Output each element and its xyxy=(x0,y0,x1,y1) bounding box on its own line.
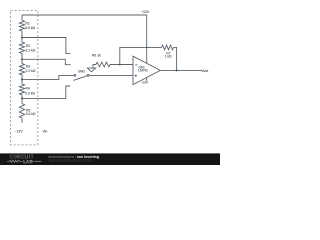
resistor R2 xyxy=(19,42,24,54)
potentiometer R6 wiper arrow xyxy=(87,68,95,72)
svg-text:2.2 kΩ: 2.2 kΩ xyxy=(25,91,35,95)
svg-text:-12V: -12V xyxy=(141,80,149,84)
svg-text:http://circuitlab.com/c/2cc5a: http://circuitlab.com/c/2cc5a xyxy=(48,158,91,162)
wire feedback up-left xyxy=(120,47,162,64)
svg-text:R3: R3 xyxy=(26,65,30,69)
svg-text:2.2 kΩ: 2.2 kΩ xyxy=(26,69,36,73)
svg-text:- 12V: - 12V xyxy=(15,129,24,133)
resistor R7 xyxy=(162,45,174,50)
svg-text:1 kΩ: 1 kΩ xyxy=(165,55,173,59)
svg-text:3.3 kΩ: 3.3 kΩ xyxy=(26,112,36,116)
svg-text:2.2 kΩ: 2.2 kΩ xyxy=(26,49,36,53)
resistor R5 xyxy=(19,104,24,119)
svg-text:+12V: +12V xyxy=(141,10,150,14)
node junction feedback at output xyxy=(176,69,178,71)
wire R6 wiper link xyxy=(93,65,96,69)
wire op-amp V+ pin from +12V rail xyxy=(146,15,148,63)
resistor R4 xyxy=(19,84,24,95)
potentiometer R6 body xyxy=(96,62,110,67)
svg-text:R4: R4 xyxy=(26,87,30,91)
wire tap3 to switch xyxy=(22,75,74,79)
svg-text:Vout: Vout xyxy=(201,69,208,73)
svg-text:3.3 kΩ: 3.3 kΩ xyxy=(25,26,35,30)
node junction R1-R2 tap xyxy=(21,36,23,38)
svg-text:R6 1k: R6 1k xyxy=(92,53,101,57)
op-amp plus sign xyxy=(135,75,137,77)
dashed selection box xyxy=(11,11,38,145)
wire R2-R3 xyxy=(21,54,23,64)
resistor R3 xyxy=(19,64,24,75)
footer logo resistor stroke xyxy=(7,160,41,162)
switch SW1 terminal right xyxy=(87,75,89,77)
switch SW1 terminal left xyxy=(74,75,76,77)
footer bar xyxy=(0,153,220,165)
node junction feedback at - input xyxy=(119,63,121,65)
svg-text:Vin: Vin xyxy=(42,129,47,133)
svg-text:R1: R1 xyxy=(25,21,29,25)
svg-text:LAB: LAB xyxy=(23,159,33,164)
node junction R3-R4 tap xyxy=(21,79,23,81)
wire tap2 xyxy=(22,59,71,64)
switch SW1 lever xyxy=(73,76,87,81)
wire feedback down to output xyxy=(174,47,177,70)
wire R1-R2 xyxy=(21,31,23,42)
node junction feedback crossing xyxy=(146,47,148,49)
svg-text:R2: R2 xyxy=(26,44,30,48)
node junction R4-R5 tap xyxy=(21,97,23,99)
wire switch to op-amp + input xyxy=(89,74,133,76)
wire op-amp V- pin xyxy=(146,78,148,81)
node junction R2-R3 tap xyxy=(21,58,23,60)
wire ladder bottom to -12V xyxy=(21,118,23,123)
wire R6 to op-amp - input xyxy=(110,64,133,66)
op-amp OA1 triangle xyxy=(133,56,160,84)
op-amp minus sign xyxy=(135,64,137,66)
wire R4-R5 xyxy=(21,95,23,104)
wire output xyxy=(160,69,202,71)
wire ladder segment top xyxy=(21,15,23,20)
resistor R1 xyxy=(19,20,24,31)
wire tap4 xyxy=(22,86,70,98)
svg-text:SW1: SW1 xyxy=(78,70,85,74)
wire +12V top rail xyxy=(22,14,147,16)
svg-text:LM741: LM741 xyxy=(138,69,148,73)
wire tap1 xyxy=(22,38,71,54)
wire R3-R4 xyxy=(21,75,23,84)
